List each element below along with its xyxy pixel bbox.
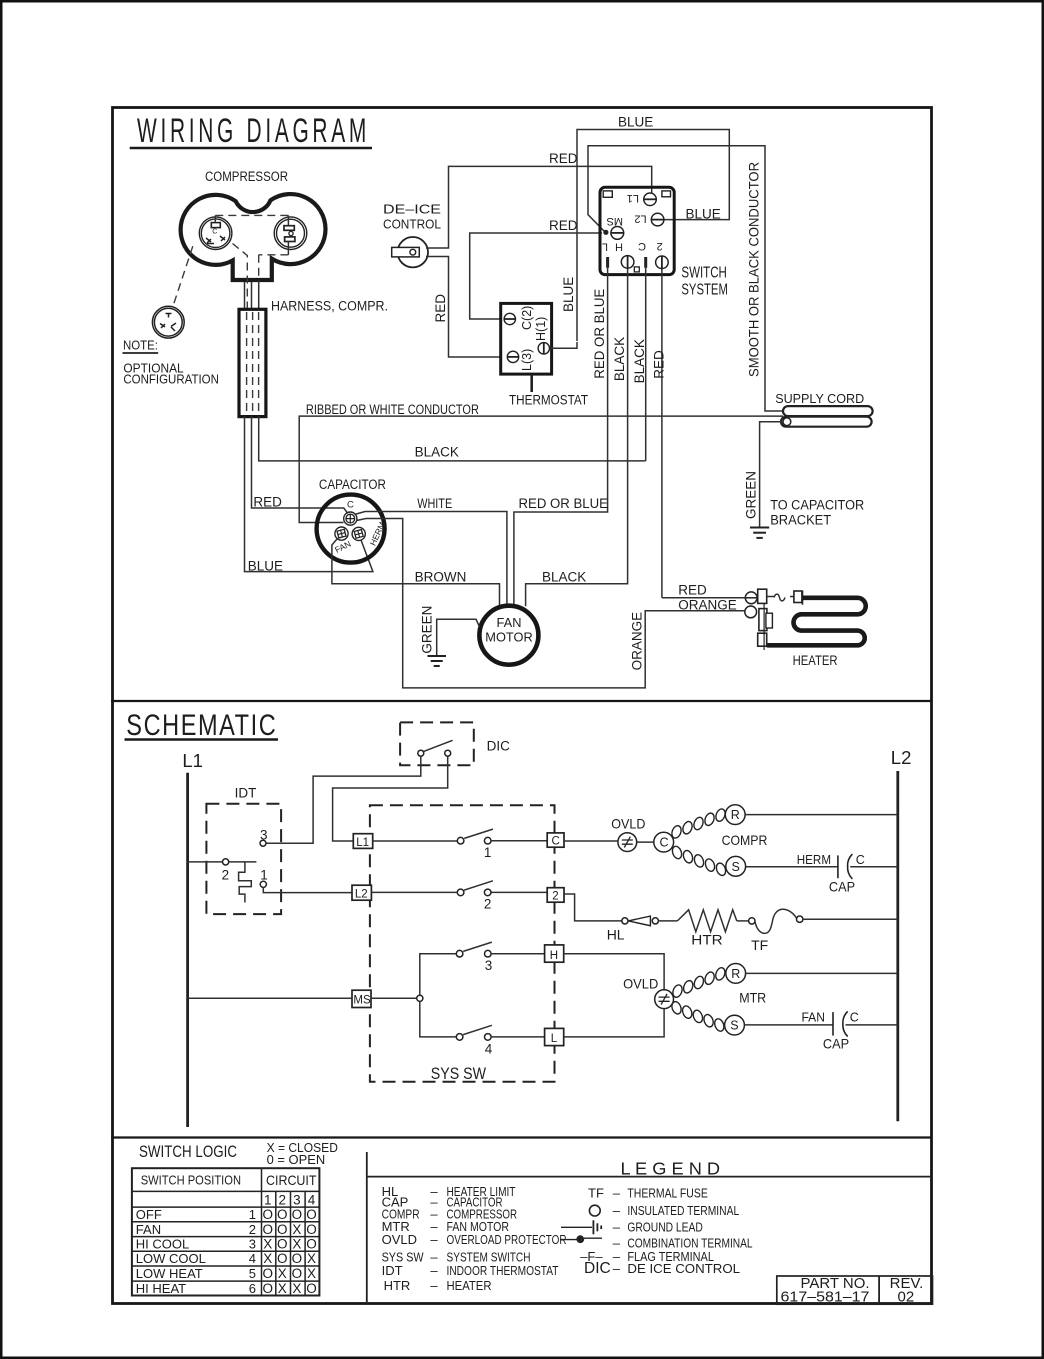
terminal box 2 xyxy=(547,888,564,903)
svg-text:CAPACITOR: CAPACITOR xyxy=(319,477,386,492)
svg-text:INDOOR THERMOSTAT: INDOOR THERMOSTAT xyxy=(447,1263,559,1278)
compressor run winding coil xyxy=(670,808,727,840)
svg-text:IDT: IDT xyxy=(382,1263,403,1278)
svg-text:O: O xyxy=(262,1281,273,1296)
IDT bimetal xyxy=(239,862,252,903)
svg-text:O: O xyxy=(292,1266,303,1281)
svg-text:RED OR BLUE: RED OR BLUE xyxy=(519,496,609,511)
svg-text:MOTOR: MOTOR xyxy=(485,629,532,644)
svg-text:2: 2 xyxy=(222,868,230,883)
svg-text:C: C xyxy=(638,240,646,252)
switch 1 xyxy=(373,840,458,842)
svg-text:L2: L2 xyxy=(355,889,368,901)
svg-text:2: 2 xyxy=(552,891,558,903)
svg-text:GREEN: GREEN xyxy=(420,606,435,654)
svg-text:BROWN: BROWN xyxy=(415,569,467,584)
svg-text:C: C xyxy=(552,836,560,848)
svg-text:O: O xyxy=(262,1266,273,1281)
svg-text:L1: L1 xyxy=(356,837,369,849)
svg-text:BLUE: BLUE xyxy=(618,115,653,130)
thermostat box xyxy=(501,303,552,374)
svg-text:BLACK: BLACK xyxy=(612,337,627,381)
terminal box L2 xyxy=(352,885,371,900)
svg-text:–: – xyxy=(613,1261,621,1276)
svg-text:O: O xyxy=(262,1222,273,1237)
svg-text:–: – xyxy=(430,1232,438,1247)
optional configuration circle xyxy=(152,306,184,338)
insulated terminal symbol xyxy=(589,1205,600,1216)
svg-text:S: S xyxy=(732,860,740,874)
svg-text:–: – xyxy=(430,1263,438,1278)
svg-text:1: 1 xyxy=(260,868,268,883)
combination terminal symbol xyxy=(560,1239,577,1241)
svg-text:FAN: FAN xyxy=(497,615,522,630)
legend left column xyxy=(382,1184,425,1293)
svg-text:OFF: OFF xyxy=(136,1207,162,1222)
svg-text:2: 2 xyxy=(657,240,663,252)
svg-text:O: O xyxy=(277,1237,288,1252)
svg-text:MS: MS xyxy=(607,215,624,227)
cap FAN terminal xyxy=(335,527,348,540)
svg-text:HL: HL xyxy=(607,927,625,943)
svg-text:H: H xyxy=(615,241,623,253)
legend divider xyxy=(366,1152,368,1304)
svg-text:C: C xyxy=(212,229,217,236)
svg-text:DE–ICE: DE–ICE xyxy=(383,202,441,217)
svg-text:O: O xyxy=(306,1237,317,1252)
svg-text:6: 6 xyxy=(249,1281,256,1296)
wire black from switch H to fan motor xyxy=(526,268,628,606)
herm capacitor xyxy=(837,855,839,878)
svg-text:O: O xyxy=(277,1207,288,1222)
junction to switch 4 xyxy=(420,1001,457,1037)
HL heater limit xyxy=(622,918,628,924)
svg-text:WHITE: WHITE xyxy=(417,496,452,511)
DIC dashed box xyxy=(400,722,474,765)
svg-text:LOW COOL: LOW COOL xyxy=(136,1251,206,1266)
svg-text:CIRCUIT: CIRCUIT xyxy=(266,1173,317,1188)
svg-text:SCHEMATIC: SCHEMATIC xyxy=(126,709,277,742)
svg-text:TO CAPACITOR: TO CAPACITOR xyxy=(770,498,864,513)
svg-text:COMBINATION TERMINAL: COMBINATION TERMINAL xyxy=(627,1235,752,1250)
switch 2 xyxy=(371,891,457,893)
TF thermal fuse xyxy=(749,918,755,924)
cap C terminal xyxy=(344,512,357,525)
dashed internal wiring xyxy=(173,215,289,308)
svg-text:BLACK: BLACK xyxy=(542,569,586,584)
svg-text:–: – xyxy=(613,1203,621,1218)
svg-text:CONTROL: CONTROL xyxy=(383,217,441,232)
green to capacitor bracket xyxy=(760,422,783,527)
svg-text:02: 02 xyxy=(898,1288,915,1305)
svg-text:CAP: CAP xyxy=(823,1036,849,1052)
svg-text:HEATER: HEATER xyxy=(447,1278,492,1293)
svg-text:INSULATED TERMINAL: INSULATED TERMINAL xyxy=(627,1203,739,1218)
svg-text:4: 4 xyxy=(485,1041,493,1056)
IDT arm xyxy=(229,861,257,863)
harness box xyxy=(239,309,266,416)
svg-text:L: L xyxy=(602,241,608,253)
svg-text:–: – xyxy=(613,1186,621,1201)
thermostat terminals xyxy=(504,313,549,362)
svg-text:MS: MS xyxy=(353,994,371,1006)
svg-text:THERMAL FUSE: THERMAL FUSE xyxy=(627,1186,708,1201)
switch pins xyxy=(606,257,609,268)
svg-text:O: O xyxy=(262,1207,273,1222)
wire red-or-blue from switch L pin to fan motor xyxy=(514,268,608,605)
svg-text:RED: RED xyxy=(652,350,667,379)
svg-text:L: L xyxy=(551,1033,558,1045)
svg-text:2: 2 xyxy=(278,1193,286,1208)
terminal box H xyxy=(545,945,564,962)
svg-text:O: O xyxy=(306,1281,317,1296)
svg-text:OVLD: OVLD xyxy=(382,1232,417,1247)
svg-text:HTR: HTR xyxy=(691,931,722,947)
terminal box C xyxy=(547,833,564,847)
wire de-ice down to thermostat L(3) xyxy=(426,257,502,358)
svg-text:4: 4 xyxy=(308,1193,316,1208)
thermostat H1 to blue vertical xyxy=(550,342,577,348)
svg-text:X: X xyxy=(307,1266,316,1281)
svg-text:X: X xyxy=(292,1222,301,1237)
svg-text:3: 3 xyxy=(293,1193,301,1208)
svg-text:–: – xyxy=(613,1235,621,1250)
svg-text:H(1): H(1) xyxy=(534,317,548,341)
terminal box L xyxy=(545,1028,564,1045)
wire de-ice to L1 (red) xyxy=(426,166,652,248)
wire IDT-3 to DIC left xyxy=(266,756,421,843)
svg-text:3: 3 xyxy=(260,827,268,842)
switch system box xyxy=(600,187,674,274)
svg-text:X: X xyxy=(278,1266,287,1281)
compressor left terminal xyxy=(199,217,232,250)
svg-text:2: 2 xyxy=(484,897,492,912)
svg-text:1: 1 xyxy=(264,1193,272,1208)
compressor common C xyxy=(654,832,674,852)
svg-text:SWITCH POSITION: SWITCH POSITION xyxy=(141,1173,241,1187)
svg-text:O: O xyxy=(277,1222,288,1237)
IDT contact 2 xyxy=(223,859,229,865)
svg-text:SMOOTH OR BLACK CONDUCTOR: SMOOTH OR BLACK CONDUCTOR xyxy=(747,162,762,377)
svg-text:NOTE:: NOTE: xyxy=(123,339,158,353)
switch logic table xyxy=(132,1168,320,1295)
svg-text:3: 3 xyxy=(485,958,493,973)
wire DIC right to L1 box xyxy=(333,756,448,841)
svg-text:LOW HEAT: LOW HEAT xyxy=(136,1266,203,1281)
svg-text:L E G E N D: L E G E N D xyxy=(621,1158,721,1178)
svg-text:2: 2 xyxy=(249,1222,256,1237)
thermostat capillary xyxy=(530,375,533,393)
wire L1 to MS xyxy=(188,997,352,999)
svg-text:O: O xyxy=(277,1251,288,1266)
svg-text:COMPR: COMPR xyxy=(722,832,768,848)
terminal stub lines xyxy=(214,215,216,222)
svg-text:GROUND LEAD: GROUND LEAD xyxy=(627,1220,702,1235)
svg-text:–: – xyxy=(613,1220,621,1235)
svg-text:X: X xyxy=(292,1281,301,1296)
section divider 2 xyxy=(111,1136,932,1138)
svg-text:C(2): C(2) xyxy=(520,306,534,330)
svg-text:L2: L2 xyxy=(891,747,912,768)
svg-text:COMPRESSOR: COMPRESSOR xyxy=(205,169,288,184)
svg-text:L2: L2 xyxy=(634,213,646,225)
motor run coil xyxy=(671,966,726,998)
svg-text:C: C xyxy=(850,1010,859,1024)
svg-text:FAN: FAN xyxy=(802,1010,825,1024)
svg-text:R: R xyxy=(731,967,740,981)
svg-text:1: 1 xyxy=(484,845,492,860)
fan capacitor xyxy=(832,1012,834,1036)
HTR resistor xyxy=(677,910,736,932)
svg-text:CONFIGURATION: CONFIGURATION xyxy=(123,372,218,387)
svg-text:SYS SW: SYS SW xyxy=(431,1064,486,1083)
svg-text:O: O xyxy=(292,1207,303,1222)
wire black from switch C pin down xyxy=(645,268,647,461)
wire 2-box to HL xyxy=(564,894,622,921)
fan motor xyxy=(479,606,538,665)
SYS SW dashed box xyxy=(370,805,555,1081)
ground lead symbol xyxy=(561,1220,601,1234)
svg-text:O: O xyxy=(306,1207,317,1222)
svg-text:X: X xyxy=(278,1281,287,1296)
svg-text:SWITCH LOGIC: SWITCH LOGIC xyxy=(139,1143,237,1161)
svg-text:X: X xyxy=(263,1237,272,1252)
compressor S terminal xyxy=(726,856,746,876)
svg-text:X: X xyxy=(307,1251,316,1266)
terminal box L1 xyxy=(353,834,372,849)
svg-text:BLACK: BLACK xyxy=(415,445,459,460)
svg-text:HTR: HTR xyxy=(384,1278,411,1293)
blue wire top xyxy=(577,130,729,342)
orange wire from cap C xyxy=(357,519,748,688)
terminal box MS xyxy=(352,990,371,1007)
IDT contact 1 xyxy=(260,881,266,887)
wire IDT-1 to L2 box xyxy=(263,887,352,892)
svg-text:BLUE: BLUE xyxy=(561,277,576,312)
svg-text:5: 5 xyxy=(249,1266,256,1281)
compressor R terminal xyxy=(725,805,745,825)
svg-text:C: C xyxy=(347,500,354,511)
svg-text:RED OR BLUE: RED OR BLUE xyxy=(592,289,607,379)
svg-text:SWITCH: SWITCH xyxy=(681,265,727,282)
svg-text:MTR: MTR xyxy=(739,990,766,1006)
svg-text:O: O xyxy=(306,1222,317,1237)
svg-text:SYSTEM: SYSTEM xyxy=(681,282,728,299)
drawing frame xyxy=(113,108,932,1304)
compressor start winding coil xyxy=(671,845,728,877)
cap HERM terminal xyxy=(352,527,365,540)
wire red from switch 2 to heater xyxy=(661,269,663,598)
svg-text:HI HEAT: HI HEAT xyxy=(136,1281,186,1296)
svg-text:L1: L1 xyxy=(627,192,639,204)
svg-text:IDT: IDT xyxy=(235,786,257,801)
svg-text:HI COOL: HI COOL xyxy=(136,1237,189,1252)
svg-text:S: S xyxy=(730,1019,738,1033)
svg-text:CAP: CAP xyxy=(829,878,855,894)
svg-text:4: 4 xyxy=(249,1251,256,1266)
svg-text:X: X xyxy=(292,1237,301,1252)
heater element serpentine xyxy=(767,598,866,646)
R to L2 xyxy=(746,972,898,974)
svg-text:FAN: FAN xyxy=(136,1222,161,1237)
svg-text:HERM: HERM xyxy=(797,853,831,867)
compressor right terminal xyxy=(274,217,307,250)
svg-text:RED: RED xyxy=(678,583,707,598)
svg-text:R: R xyxy=(731,808,740,822)
svg-text:0 = OPEN: 0 = OPEN xyxy=(267,1152,326,1167)
MS junction xyxy=(371,997,417,999)
svg-text:OVLD: OVLD xyxy=(623,976,658,992)
smooth/black conductor wire xyxy=(588,146,784,411)
svg-text:H: H xyxy=(550,950,558,962)
S to fan cap xyxy=(744,1024,833,1026)
svg-text:DIC: DIC xyxy=(584,1260,611,1277)
svg-text:BRACKET: BRACKET xyxy=(770,512,831,527)
junction to switch 3 xyxy=(420,954,457,996)
svg-text:RED: RED xyxy=(549,151,578,166)
wire thermostat C2 to MS (red) xyxy=(470,233,602,319)
IDT contact 3 xyxy=(260,840,266,846)
svg-text:DIC: DIC xyxy=(487,739,511,754)
S to herm cap xyxy=(746,866,838,868)
IDT dashed box xyxy=(206,804,281,914)
svg-text:SUPPLY CORD: SUPPLY CORD xyxy=(775,392,864,406)
svg-text:RED: RED xyxy=(433,294,448,323)
section divider 1 xyxy=(111,700,932,702)
switch 3 xyxy=(456,950,463,957)
svg-text:OVERLOAD PROTECTOR: OVERLOAD PROTECTOR xyxy=(447,1232,567,1247)
svg-text:X: X xyxy=(263,1251,272,1266)
svg-text:HEATER: HEATER xyxy=(793,652,838,668)
svg-text:HARNESS, COMPR.: HARNESS, COMPR. xyxy=(271,299,388,314)
motor start coil xyxy=(670,1000,725,1032)
svg-text:O: O xyxy=(292,1251,303,1266)
svg-text:RIBBED OR WHITE CONDUCTOR: RIBBED OR WHITE CONDUCTOR xyxy=(306,402,479,417)
svg-text:TF: TF xyxy=(751,937,768,953)
R to L2 xyxy=(745,814,898,816)
svg-text:3: 3 xyxy=(249,1237,256,1252)
svg-text:L1: L1 xyxy=(182,750,203,771)
switch 4 xyxy=(456,1034,463,1041)
DIC switch xyxy=(418,750,424,756)
svg-text:617–581–17: 617–581–17 xyxy=(781,1288,870,1305)
svg-text:DE ICE CONTROL: DE ICE CONTROL xyxy=(627,1261,740,1276)
part no box xyxy=(777,1276,933,1304)
svg-text:GREEN: GREEN xyxy=(744,471,759,519)
svg-text:L(3): L(3) xyxy=(520,349,534,371)
svg-text:OVLD: OVLD xyxy=(611,816,645,832)
svg-text:ORANGE: ORANGE xyxy=(678,597,737,612)
svg-text:WIRING DIAGRAM: WIRING DIAGRAM xyxy=(137,112,370,150)
svg-text:RED: RED xyxy=(549,218,578,233)
green ground fan xyxy=(437,619,480,655)
svg-text:C: C xyxy=(856,853,865,867)
compressor body outline xyxy=(181,194,326,280)
svg-text:C: C xyxy=(660,836,669,850)
svg-text:TF: TF xyxy=(588,1186,604,1201)
svg-text:ORANGE: ORANGE xyxy=(630,612,645,671)
svg-text:1: 1 xyxy=(249,1207,256,1222)
switch terminals xyxy=(611,193,668,269)
svg-text:–: – xyxy=(430,1278,438,1293)
harness wires (3) xyxy=(244,282,246,310)
svg-text:THERMOSTAT: THERMOSTAT xyxy=(509,393,588,408)
wire L1 to IDT-2 xyxy=(188,861,223,863)
svg-text:BLUE: BLUE xyxy=(686,207,721,222)
svg-text:BLACK: BLACK xyxy=(632,339,647,383)
